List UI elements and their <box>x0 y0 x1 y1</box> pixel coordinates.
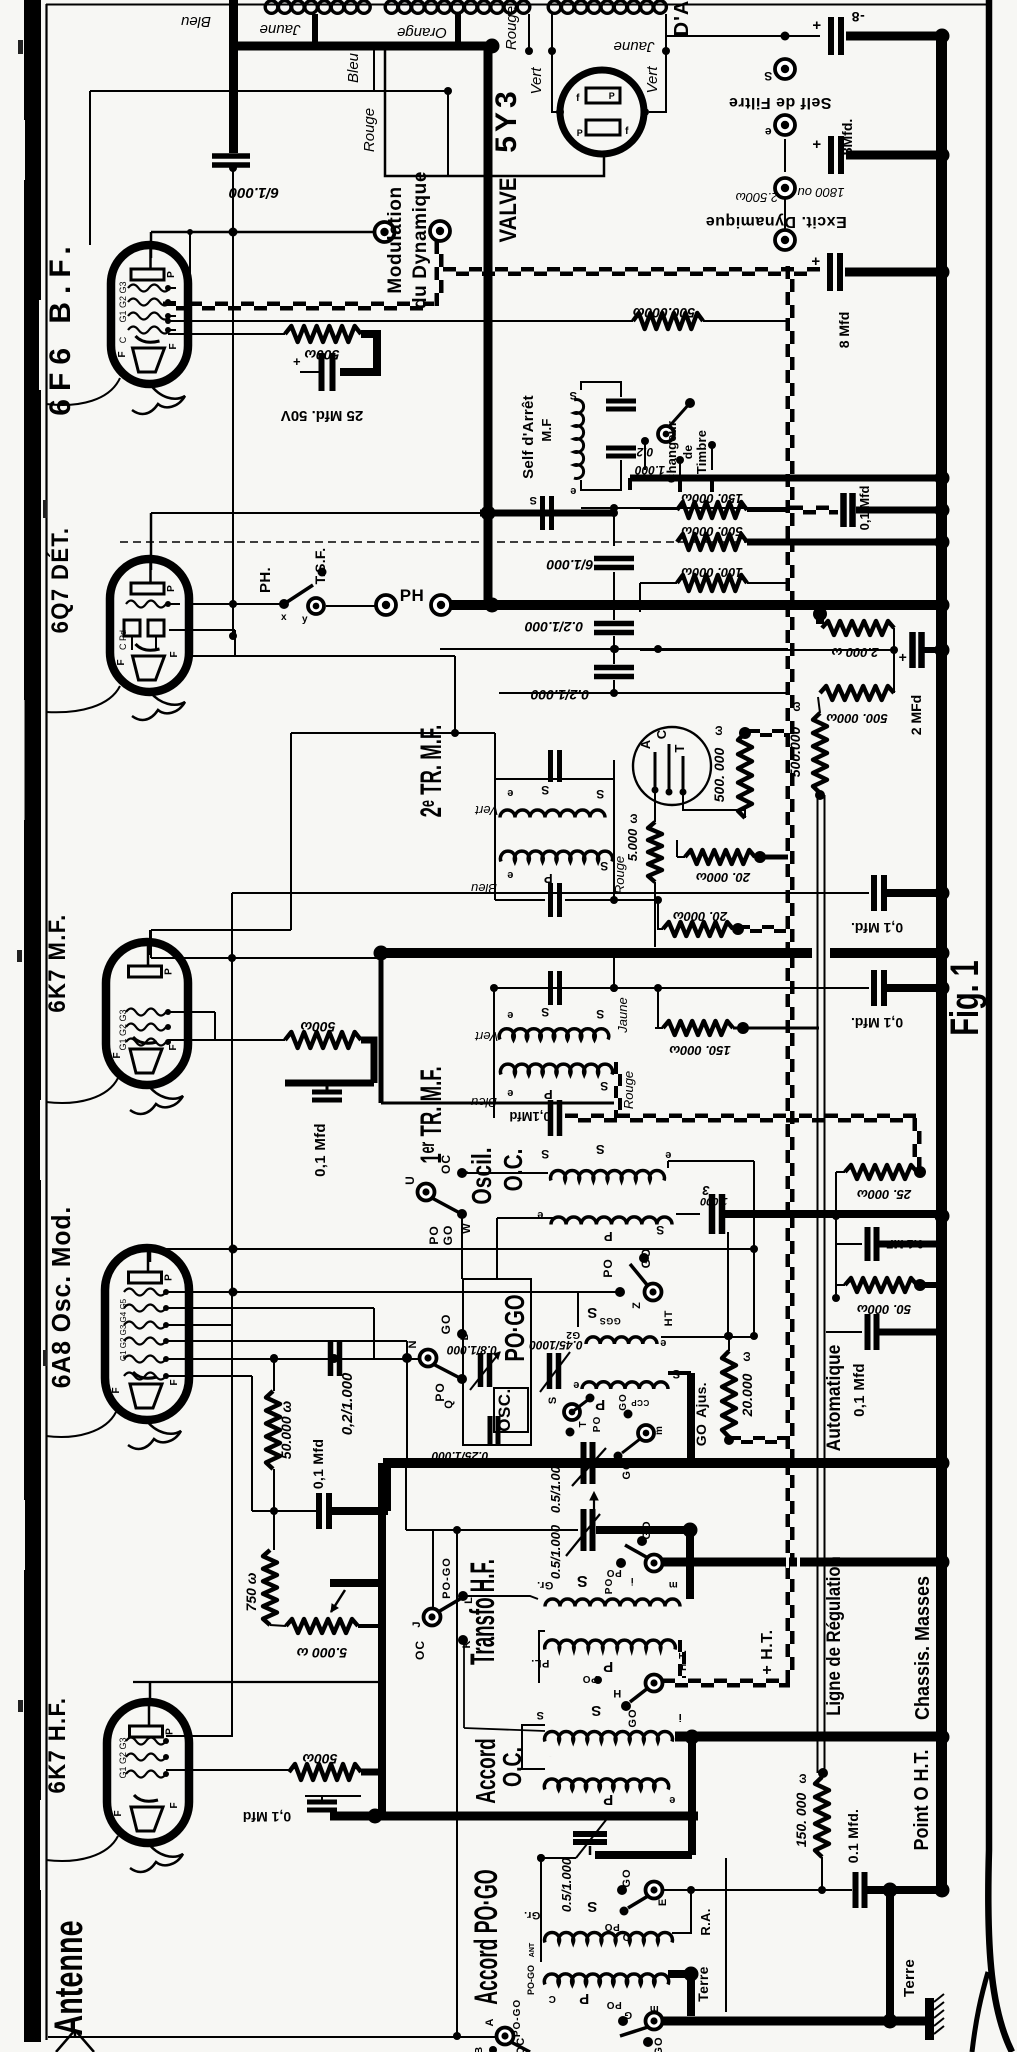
svg-text:F: F <box>168 1043 179 1050</box>
svg-text:Jaune: Jaune <box>614 38 656 55</box>
svg-text:2 MFd: 2 MFd <box>908 695 924 735</box>
svg-text:F: F <box>117 350 128 357</box>
svg-text:5.000: 5.000 <box>625 828 640 861</box>
svg-text:500ω: 500ω <box>304 347 339 363</box>
svg-text:Excit. Dynamique: Excit. Dynamique <box>705 213 846 230</box>
svg-text:ω: ω <box>795 1772 809 1783</box>
svg-text:500ω: 500ω <box>300 1019 335 1035</box>
svg-text:500.000: 500.000 <box>787 726 803 777</box>
svg-text:PO-GO: PO-GO <box>441 1557 453 1599</box>
svg-text:f: f <box>576 93 580 104</box>
svg-text:S: S <box>596 1007 605 1021</box>
svg-text:GO: GO <box>641 1520 653 1539</box>
svg-text:Jaune: Jaune <box>260 21 302 38</box>
svg-text:T.S.F.: T.S.F. <box>312 548 328 585</box>
svg-text:K: K <box>461 1640 473 1649</box>
svg-text:Ajus.: Ajus. <box>693 1382 709 1418</box>
svg-text:+: + <box>812 17 821 34</box>
svg-text:S: S <box>529 494 537 506</box>
svg-text:P: P <box>166 584 177 592</box>
svg-text:Self d'Arrêt: Self d'Arrêt <box>520 395 537 479</box>
svg-text:PO: PO <box>606 1567 621 1578</box>
svg-text:P: P <box>164 967 175 975</box>
svg-text:e: e <box>764 125 771 139</box>
svg-text:D: D <box>459 1332 471 1341</box>
svg-text:+: + <box>293 354 301 369</box>
svg-text:0.1 Mfd.: 0.1 Mfd. <box>845 1809 861 1864</box>
svg-text:ω: ω <box>739 1350 753 1361</box>
svg-text:PO: PO <box>606 1999 621 2010</box>
svg-text:PO-GO: PO-GO <box>526 1965 536 1995</box>
svg-text:OC: OC <box>413 1640 427 1660</box>
svg-text:P: P <box>166 270 177 278</box>
svg-text:ω: ω <box>789 700 803 711</box>
svg-text:500. 000ω: 500. 000ω <box>681 524 743 539</box>
svg-text:+: + <box>899 649 908 665</box>
svg-text:P: P <box>164 1273 175 1281</box>
svg-text:A: A <box>638 739 653 749</box>
svg-text:6K7 M.F.: 6K7 M.F. <box>43 913 70 1012</box>
svg-text:GO: GO <box>439 1314 453 1335</box>
svg-text:VALVE: VALVE <box>494 178 521 243</box>
svg-text:S: S <box>541 783 550 797</box>
svg-text:Gr.: Gr. <box>537 1579 554 1591</box>
svg-text:0,1 Mfd: 0,1 Mfd <box>243 1809 291 1825</box>
svg-text:GO: GO <box>627 1708 639 1727</box>
svg-text:0,1 Mfd.: 0,1 Mfd. <box>851 920 903 936</box>
svg-text:E: E <box>657 1898 669 1906</box>
svg-text:100. 000ω: 100. 000ω <box>681 565 743 580</box>
svg-text:G1 G2 G3: G1 G2 G3 <box>118 1737 128 1778</box>
svg-text:P: P <box>595 1396 606 1413</box>
svg-text:2.000 ω: 2.000 ω <box>831 645 879 660</box>
svg-text:U: U <box>403 1175 417 1185</box>
svg-text:+: + <box>812 136 821 153</box>
svg-text:20. 000ω: 20. 000ω <box>673 909 728 924</box>
svg-text:F: F <box>169 1801 180 1808</box>
svg-text:F: F <box>168 342 179 349</box>
svg-text:PO: PO <box>592 1416 603 1432</box>
svg-text:0,2/1.000: 0,2/1.000 <box>339 1372 356 1435</box>
svg-text:Accord PO·GO: Accord PO·GO <box>468 1869 504 2004</box>
svg-text:e: e <box>573 1379 580 1391</box>
svg-text:P: P <box>603 1658 614 1675</box>
svg-text:500.000ω: 500.000ω <box>633 305 696 321</box>
svg-text:150. 000ω: 150. 000ω <box>681 491 743 506</box>
svg-text:GO: GO <box>621 1460 633 1479</box>
svg-text:Changeur: Changeur <box>664 421 679 483</box>
svg-text:F: F <box>112 1051 123 1058</box>
svg-text:y: y <box>302 614 308 625</box>
svg-text:S: S <box>600 859 609 873</box>
svg-text:2ᵉ TR. M.F.: 2ᵉ TR. M.F. <box>415 725 449 818</box>
svg-text:Gr.: Gr. <box>524 1909 541 1921</box>
svg-text:f: f <box>625 126 629 137</box>
svg-text:0,1 Mfd: 0,1 Mfd <box>312 1123 329 1177</box>
svg-text:PO: PO <box>427 1225 441 1244</box>
svg-text:PO: PO <box>604 1578 615 1594</box>
svg-text:e: e <box>669 1794 676 1806</box>
svg-text:Vert: Vert <box>528 67 545 95</box>
svg-text:S: S <box>596 787 605 801</box>
svg-text:m: m <box>668 1579 677 1590</box>
svg-text:+ H.T.: + H.T. <box>759 1629 776 1674</box>
svg-text:0,1Mfd: 0,1Mfd <box>509 1109 550 1124</box>
svg-text:6/1.000: 6/1.000 <box>546 557 593 573</box>
svg-text:F: F <box>111 1386 122 1393</box>
svg-text:M.F: M.F <box>539 418 554 441</box>
svg-text:0,1 Mfd: 0,1 Mfd <box>857 486 872 531</box>
svg-text:Self de Filtre: Self de Filtre <box>728 94 831 111</box>
svg-text:C: C <box>654 729 669 739</box>
svg-text:PO·GO: PO·GO <box>500 1294 531 1361</box>
svg-text:150. 000ω: 150. 000ω <box>669 1043 731 1058</box>
svg-text:S: S <box>591 1702 602 1719</box>
svg-text:i: i <box>678 1711 682 1723</box>
svg-text:0,1 Mfd: 0,1 Mfd <box>310 1439 326 1489</box>
svg-text:6/1.000: 6/1.000 <box>228 184 279 201</box>
svg-text:S: S <box>541 1005 550 1019</box>
svg-text:GO: GO <box>693 1424 709 1446</box>
svg-text:Rouge: Rouge <box>503 6 520 50</box>
svg-text:e: e <box>507 869 514 881</box>
svg-text:F: F <box>169 650 180 657</box>
svg-text:OC: OC <box>515 2037 527 2052</box>
svg-text:ω: ω <box>711 724 725 735</box>
svg-text:CCP: CCP <box>631 1398 650 1407</box>
svg-text:P: P <box>609 91 616 101</box>
svg-text:D: D <box>622 1931 630 1942</box>
svg-text:GO: GO <box>639 1248 653 1269</box>
svg-text:S: S <box>656 1223 665 1237</box>
svg-text:R.A.: R.A. <box>698 1908 713 1935</box>
svg-text:500. 000ω: 500. 000ω <box>826 711 888 726</box>
svg-text:Q: Q <box>443 1399 455 1409</box>
svg-text:G1 G2 G3: G1 G2 G3 <box>118 281 128 322</box>
svg-text:S: S <box>536 1709 544 1721</box>
svg-text:5Y3: 5Y3 <box>490 87 523 152</box>
svg-text:B: B <box>474 2046 485 2052</box>
svg-text:Timbre: Timbre <box>694 430 709 474</box>
svg-text:e: e <box>665 1149 672 1161</box>
svg-text:0.8/1.000: 0.8/1.000 <box>447 1343 497 1357</box>
svg-text:S: S <box>576 1572 587 1589</box>
svg-text:S: S <box>541 1147 550 1161</box>
svg-text:0.45/1000: 0.45/1000 <box>529 1338 583 1352</box>
svg-text:Orange: Orange <box>397 24 447 41</box>
svg-text:F: F <box>116 658 127 665</box>
svg-text:Rouge: Rouge <box>621 1071 636 1109</box>
svg-text:A: A <box>484 2018 496 2027</box>
svg-text:OC: OC <box>439 1154 453 1174</box>
svg-text:25 Mfd. 50V: 25 Mfd. 50V <box>281 407 364 424</box>
svg-text:S: S <box>595 1142 604 1157</box>
svg-text:x: x <box>281 612 287 623</box>
svg-text:O.C.: O.C. <box>499 1149 528 1192</box>
svg-text:0.5/1.000: 0.5/1.000 <box>559 1857 574 1912</box>
svg-text:GO: GO <box>441 1225 455 1246</box>
svg-text:6A8 Osc. Mod.: 6A8 Osc. Mod. <box>47 1206 76 1388</box>
svg-text:1.000: 1.000 <box>699 1195 727 1207</box>
svg-text:m: m <box>654 1425 665 1435</box>
svg-text:T: T <box>672 744 687 753</box>
svg-text:Bleu: Bleu <box>345 52 362 83</box>
svg-text:6F6 B.F.: 6F6 B.F. <box>44 238 77 415</box>
svg-text:1ᵉʳ TR. M.F.: 1ᵉʳ TR. M.F. <box>415 1066 449 1163</box>
svg-text:1800 ou: 1800 ou <box>798 185 845 200</box>
svg-text:e: e <box>507 1087 514 1099</box>
svg-text:6K7 H.F.: 6K7 H.F. <box>43 1697 70 1794</box>
svg-text:0.2/1.000: 0.2/1.000 <box>525 619 584 635</box>
svg-text:0.1 MF: 0.1 MF <box>886 1237 923 1251</box>
svg-text:F: F <box>169 1378 180 1385</box>
svg-text:Point O H.T.: Point O H.T. <box>911 1750 933 1851</box>
svg-text:P: P <box>577 128 584 138</box>
svg-text:2.500ω: 2.500ω <box>736 190 780 205</box>
svg-text:0,1 Mfd.: 0,1 Mfd. <box>851 1015 903 1031</box>
svg-text:Antenne: Antenne <box>46 1920 91 2035</box>
svg-text:500. 000: 500. 000 <box>711 748 727 803</box>
svg-text:S: S <box>547 1396 559 1404</box>
svg-text:PH.: PH. <box>257 567 274 593</box>
svg-text:S: S <box>600 1079 609 1093</box>
svg-text:ANT: ANT <box>529 1942 536 1957</box>
svg-text:N: N <box>407 1340 419 1349</box>
svg-text:5.000 ω: 5.000 ω <box>296 1645 347 1661</box>
svg-text:de: de <box>681 445 695 460</box>
svg-text:0.25/1.000: 0.25/1.000 <box>431 1449 488 1463</box>
svg-text:T: T <box>578 1420 589 1427</box>
svg-text:C: C <box>118 336 128 343</box>
svg-text:D'A: D'A <box>671 0 693 36</box>
svg-text:500ω: 500ω <box>302 1751 337 1767</box>
svg-text:GGS: GGS <box>599 1316 621 1326</box>
svg-text:Chassis. Masses: Chassis. Masses <box>912 1576 934 1720</box>
svg-text:0.2/1.000: 0.2/1.000 <box>531 687 590 703</box>
svg-text:e: e <box>570 485 577 497</box>
svg-text:C: C <box>548 1993 556 2004</box>
svg-text:20.000: 20.000 <box>739 1373 755 1417</box>
svg-text:Bleu: Bleu <box>180 13 211 30</box>
svg-text:P: P <box>165 1727 176 1735</box>
svg-text:J: J <box>411 1620 423 1627</box>
svg-text:Vert: Vert <box>474 1029 499 1044</box>
svg-text:0.5/1.000: 0.5/1.000 <box>548 1524 563 1579</box>
svg-text:Automatique: Automatique <box>822 1345 844 1452</box>
svg-text:750 ω: 750 ω <box>243 1572 259 1611</box>
svg-text:PO: PO <box>604 1921 619 1932</box>
svg-text:Vert: Vert <box>474 803 499 818</box>
svg-text:PO-GO: PO-GO <box>512 1999 523 2037</box>
svg-text:i: i <box>630 1575 633 1586</box>
svg-text:Ligne de Régulation: Ligne de Régulation <box>823 1556 844 1716</box>
svg-text:Terre: Terre <box>695 1966 711 2001</box>
svg-text:25. 000ω: 25. 000ω <box>857 1187 912 1202</box>
svg-text:C Pd: C Pd <box>118 630 128 650</box>
svg-text:S: S <box>587 1898 598 1915</box>
svg-text:e: e <box>507 787 514 799</box>
svg-text:-8: -8 <box>851 9 864 25</box>
svg-text:L: L <box>463 1596 475 1604</box>
svg-text:HT: HT <box>663 1310 675 1327</box>
svg-text:150. 000: 150. 000 <box>793 1793 809 1848</box>
svg-text:P: P <box>603 1791 614 1808</box>
svg-text:PO: PO <box>433 1382 447 1401</box>
svg-text:du Dynamique: du Dynamique <box>410 171 431 309</box>
svg-text:Z: Z <box>631 1301 643 1309</box>
svg-text:PO: PO <box>601 1258 615 1277</box>
svg-text:6Q7 DÉT.: 6Q7 DÉT. <box>45 527 73 634</box>
svg-text:Rouge: Rouge <box>361 108 378 152</box>
svg-text:GO: GO <box>653 2036 665 2052</box>
svg-text:Modulation: Modulation <box>385 186 406 293</box>
svg-text:P: P <box>579 1990 590 2007</box>
svg-text:Terre: Terre <box>901 1959 918 1997</box>
svg-text:F: F <box>113 1809 124 1816</box>
svg-text:P: P <box>603 1229 612 1244</box>
svg-text:e: e <box>660 1337 667 1349</box>
svg-text:GO: GO <box>621 1868 633 1887</box>
svg-text:e: e <box>507 1009 514 1021</box>
svg-text:GO: GO <box>618 1393 629 1411</box>
svg-text:Jaune: Jaune <box>615 997 630 1033</box>
svg-text:S: S <box>569 389 577 401</box>
svg-text:50.000 ω: 50.000 ω <box>278 1400 294 1459</box>
svg-text:Fig. 1: Fig. 1 <box>942 960 987 1035</box>
svg-text:S: S <box>764 69 773 83</box>
svg-text:G1 G2 G3 G4 G5: G1 G2 G3 G4 G5 <box>119 1298 128 1361</box>
svg-text:e: e <box>537 1209 544 1221</box>
svg-text:20. 000ω: 20. 000ω <box>696 870 751 885</box>
svg-text:ω: ω <box>626 812 640 823</box>
svg-text:PH: PH <box>400 586 425 605</box>
svg-text:G1 G2 G3: G1 G2 G3 <box>118 1009 128 1050</box>
svg-text:Bleu: Bleu <box>471 1095 497 1110</box>
svg-text:H: H <box>613 1687 621 1699</box>
svg-text:Vert: Vert <box>644 66 661 94</box>
svg-text:0,1 Mfd: 0,1 Mfd <box>851 1363 868 1417</box>
svg-text:0.5/1.000: 0.5/1.000 <box>548 1458 563 1513</box>
svg-text:P: P <box>543 1087 552 1102</box>
svg-text:...: ... <box>549 1755 552 1757</box>
svg-text:S: S <box>587 1304 598 1321</box>
svg-text:8 Mfd: 8 Mfd <box>836 312 852 349</box>
svg-text:Oscil.: Oscil. <box>467 1147 498 1204</box>
